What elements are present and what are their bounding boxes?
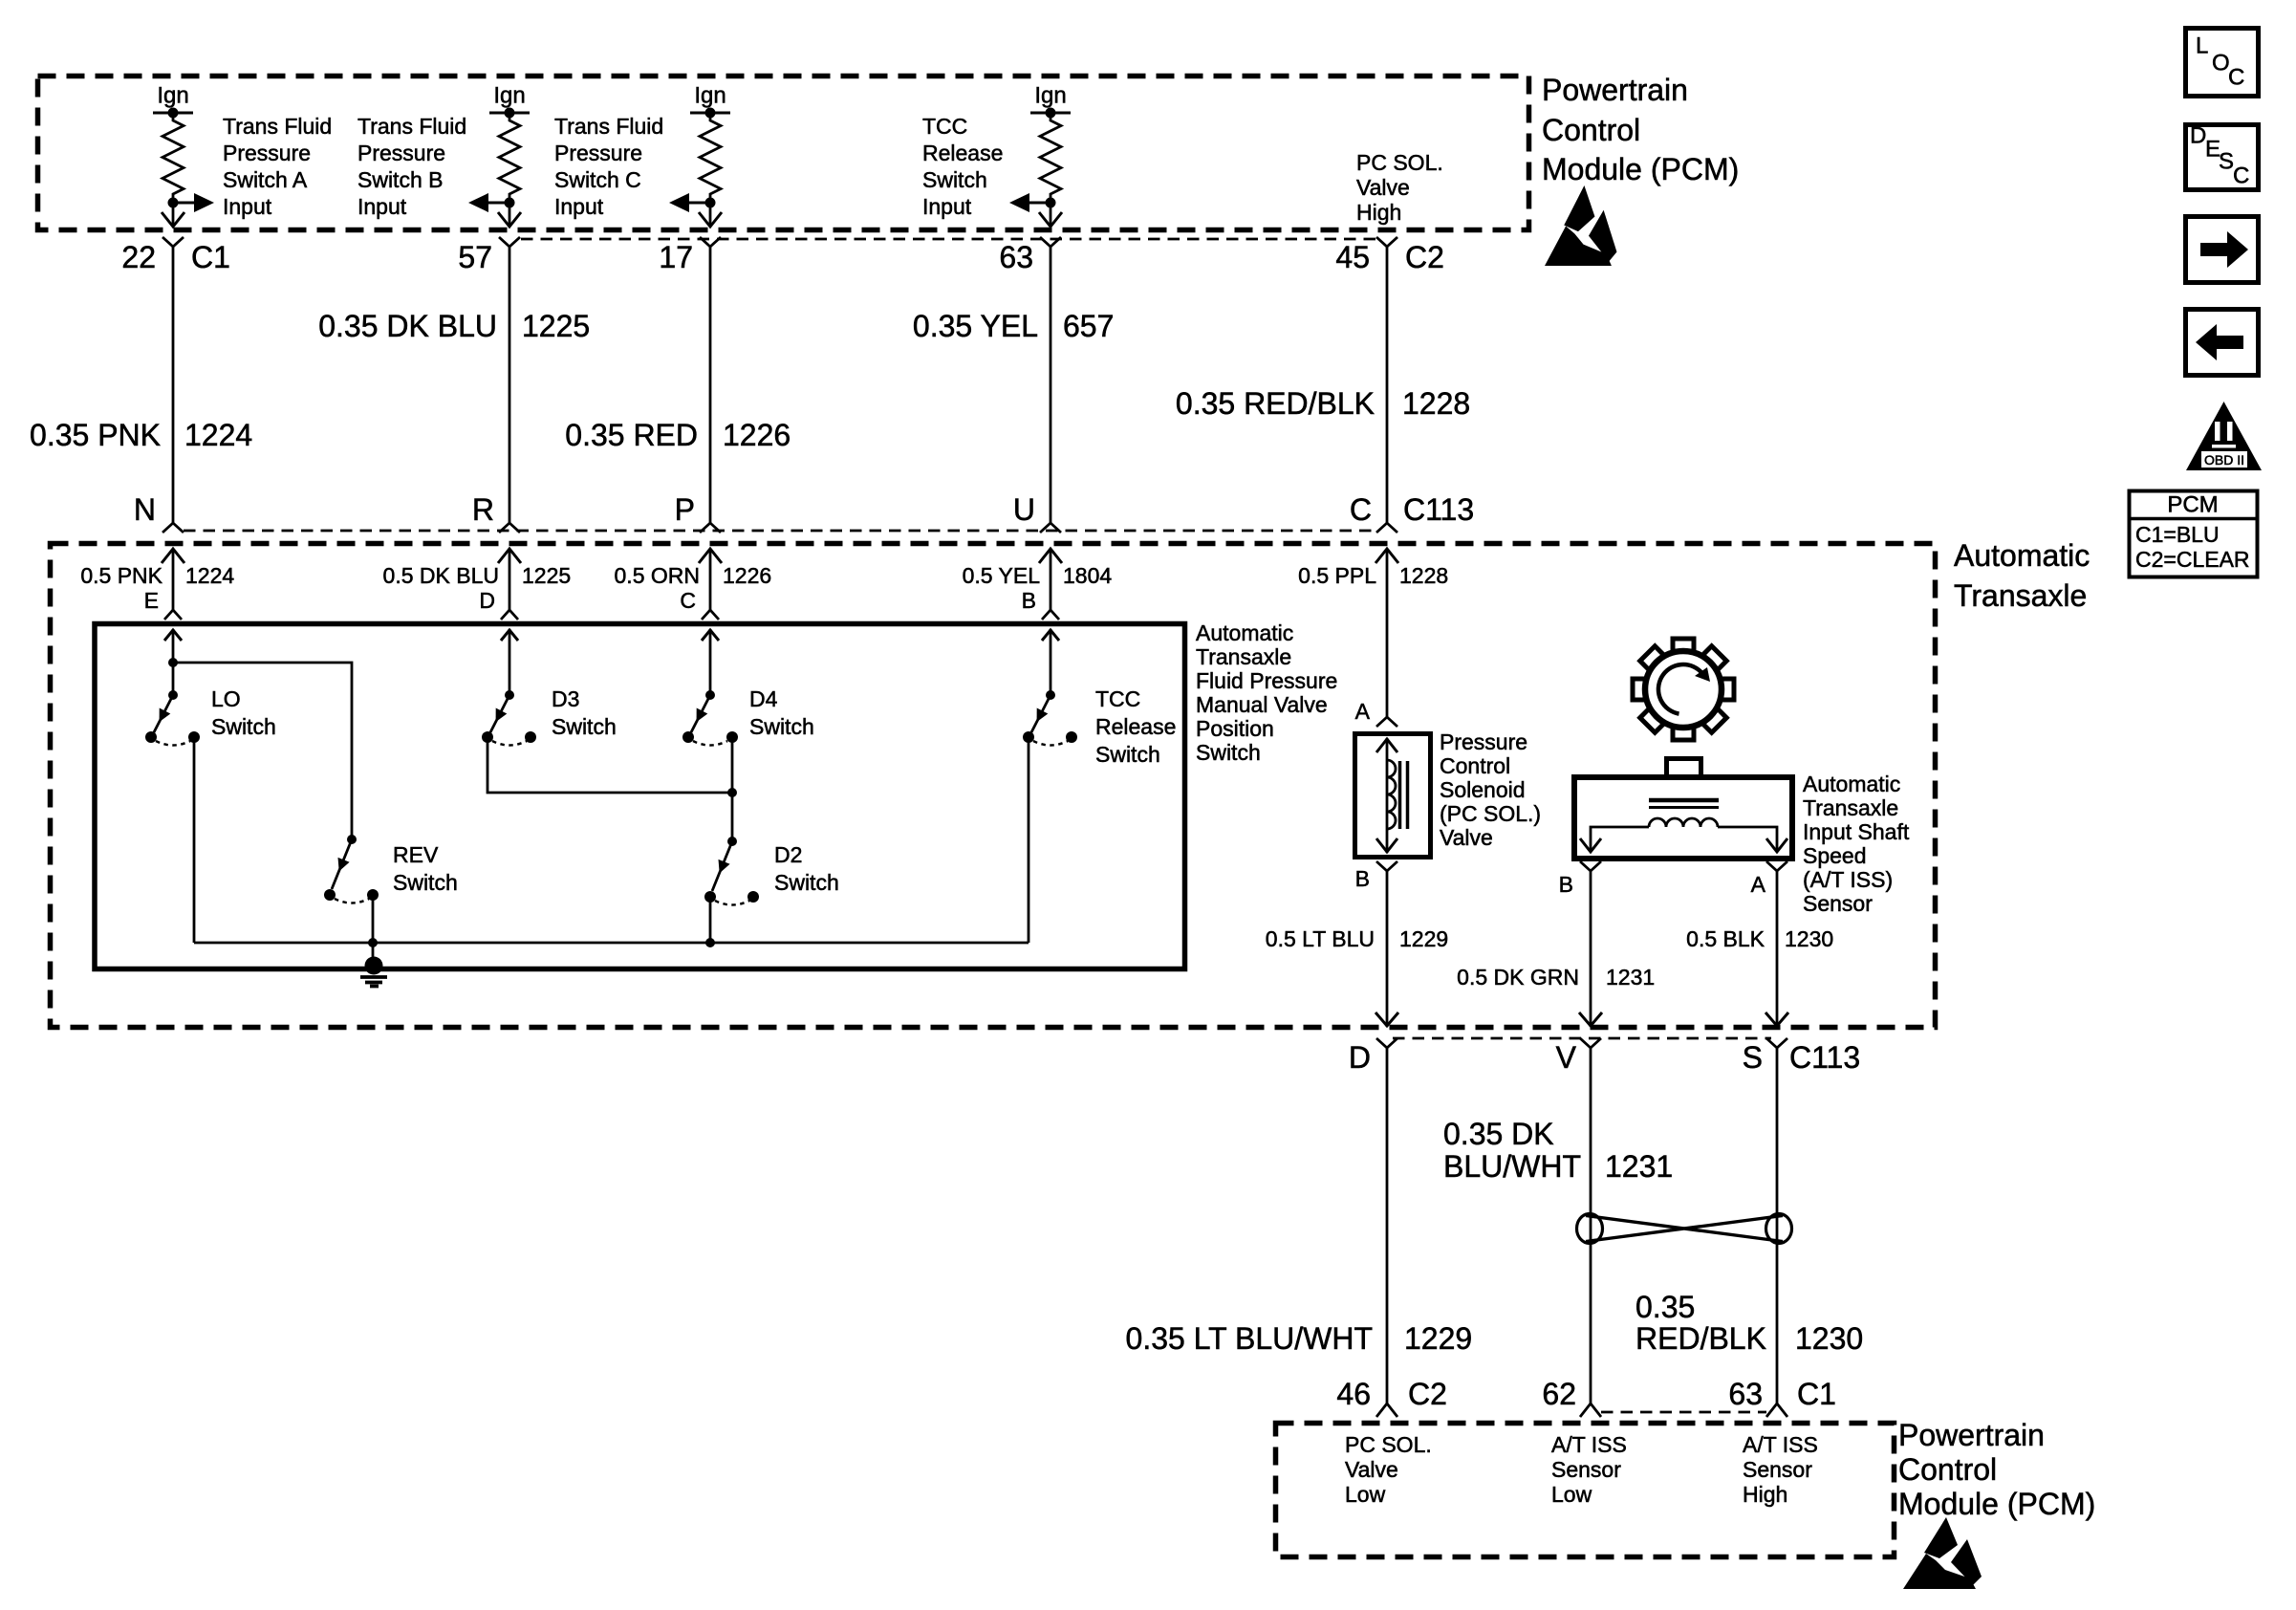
pin 17 (PCM C2) (659, 237, 721, 274)
svg-text:1225: 1225 (522, 309, 590, 343)
svg-text:Trans Fluid: Trans Fluid (554, 114, 663, 139)
PCM box top (Powertrain Control Module) (38, 76, 1529, 230)
svg-text:Ign: Ign (694, 83, 726, 109)
svg-text:A: A (1751, 872, 1766, 897)
pin 63 C1 (PCM bottom) (1728, 1377, 1836, 1417)
resistor Trans Fluid Pressure Switch C pull-up (700, 113, 721, 203)
label TCC Release Switch Input (922, 114, 1003, 219)
svg-text:Powertrain: Powertrain (1898, 1418, 2045, 1452)
wire switch A to pin 22 with down arrow (162, 203, 184, 227)
svg-text:Release: Release (922, 141, 1003, 165)
svg-text:Module (PCM): Module (PCM) (1542, 152, 1739, 186)
wire 1224 0.35 PNK pin22 to C113-N (30, 247, 252, 523)
svg-text:C: C (2228, 65, 2244, 91)
label Trans Fluid Pressure Switch B Input (357, 114, 466, 219)
label Automatic Transaxle Input Shaft Speed (A/T ISS) Sensor (1803, 772, 1910, 916)
svg-text:C113: C113 (1789, 1040, 1860, 1075)
svg-text:0.35 RED: 0.35 RED (565, 418, 698, 452)
svg-text:Position: Position (1196, 716, 1274, 741)
svg-text:RED/BLK: RED/BLK (1635, 1321, 1766, 1356)
pin 62 (PCM bottom C1) (1542, 1377, 1601, 1417)
svg-text:63: 63 (1728, 1377, 1763, 1411)
svg-text:Release: Release (1095, 714, 1176, 739)
A/T ISS sensor box (1574, 777, 1792, 859)
svg-text:0.35 DK BLU: 0.35 DK BLU (318, 309, 497, 343)
label D3 Switch (552, 686, 617, 739)
svg-text:Switch: Switch (774, 870, 839, 895)
label Pressure Control Solenoid (PC SOL.) Valve (1440, 729, 1541, 850)
svg-text:S: S (2219, 149, 2234, 175)
node Ign (switch B pull-up) (489, 83, 530, 119)
wire E entry with up arrow (164, 629, 182, 663)
svg-text:Ign: Ign (493, 83, 525, 109)
svg-text:1231: 1231 (1606, 965, 1655, 990)
svg-text:C2: C2 (1408, 1377, 1447, 1411)
svg-text:Pressure: Pressure (357, 141, 445, 165)
svg-text:1224: 1224 (184, 418, 252, 452)
pin V C113 (1556, 1038, 1601, 1075)
connector line C1 (dashed) (1601, 1411, 1766, 1414)
label PC SOL. Valve Low (1345, 1432, 1432, 1507)
svg-text:C2=CLEAR: C2=CLEAR (2135, 547, 2250, 572)
node switch B input tap (505, 198, 515, 208)
pin R C113 (472, 492, 520, 533)
pin D C113 (1349, 1038, 1397, 1075)
svg-text:A/T ISS: A/T ISS (1743, 1432, 1818, 1457)
wire 1225 0.5 DK BLU C113-R to switch D (383, 549, 572, 620)
wire REV right contact to ground (368, 900, 378, 964)
svg-text:C: C (1350, 492, 1372, 527)
svg-text:D: D (2190, 123, 2206, 149)
svg-text:E: E (144, 588, 159, 613)
svg-text:C1: C1 (191, 240, 230, 274)
wire 1224 0.5 PNK C113-N to switch E (80, 549, 234, 620)
svg-text:1228: 1228 (1399, 563, 1448, 588)
svg-text:R: R (472, 492, 494, 527)
connector line C2 (dashed) (521, 238, 1376, 241)
wire 1228 0.35 RED/BLK pin45 to C113-C (1176, 247, 1470, 523)
wire D entry with up arrow (501, 629, 518, 695)
svg-text:Input: Input (223, 194, 272, 219)
ground (inner box) (360, 957, 387, 987)
wire 1229 0.35 LT BLU/WHT C113-D to PCM 46 (1126, 1048, 1473, 1403)
svg-text:Switch: Switch (1095, 742, 1160, 767)
svg-text:62: 62 (1542, 1377, 1576, 1411)
svg-text:D: D (1349, 1040, 1371, 1075)
connector C113 top row (dashed line) (184, 530, 1376, 533)
switch D2 (704, 837, 759, 905)
node Ign (TCC release pull-up) (1030, 83, 1071, 119)
svg-text:1230: 1230 (1785, 926, 1833, 951)
svg-text:Pressure: Pressure (554, 141, 642, 165)
svg-text:V: V (1556, 1040, 1577, 1075)
coil A/T ISS sensor (1649, 818, 1718, 827)
pin S C113 (1743, 1038, 1860, 1075)
wire 1226 0.5 ORN C113-P to switch C (615, 549, 772, 620)
svg-text:B: B (1022, 588, 1036, 613)
svg-text:C: C (680, 588, 696, 613)
svg-text:Transaxle: Transaxle (1954, 578, 2087, 613)
svg-text:Switch: Switch (749, 714, 814, 739)
switch REV (324, 835, 379, 903)
node TCC release input tap (1046, 198, 1056, 208)
Automatic Transaxle box (dashed) (51, 544, 1936, 1028)
svg-text:Switch: Switch (1196, 740, 1261, 765)
Pressure Control Solenoid box (1355, 734, 1431, 858)
label Powertrain Control Module (PCM) bottom (1898, 1418, 2095, 1521)
svg-text:C1=BLU: C1=BLU (2135, 522, 2220, 547)
label PC SOL. Valve High (1356, 150, 1443, 225)
label D4 Switch (749, 686, 814, 739)
PCM box bottom (Powertrain Control Module) (1276, 1424, 1895, 1557)
svg-text:Automatic: Automatic (1196, 620, 1293, 645)
icon arrow left box (2186, 310, 2259, 376)
svg-text:Module (PCM): Module (PCM) (1898, 1487, 2095, 1521)
label A/T ISS Sensor Low (1551, 1432, 1627, 1507)
svg-text:0.5 YEL: 0.5 YEL (963, 563, 1041, 588)
wire switch B to pin 57 with down arrow (498, 203, 521, 227)
switch D3 (482, 690, 536, 746)
svg-text:PC SOL.: PC SOL. (1356, 150, 1443, 175)
svg-text:Control: Control (1898, 1452, 1997, 1487)
wire D2 left contact to bus (705, 902, 715, 947)
icon DESC box (2186, 123, 2259, 190)
svg-text:Ign: Ign (157, 83, 188, 109)
connector C113 bottom row (dashed line) (1393, 1037, 1771, 1040)
svg-text:Powertrain: Powertrain (1542, 73, 1688, 107)
svg-text:D2: D2 (774, 842, 802, 867)
svg-text:Valve: Valve (1345, 1457, 1398, 1482)
switch D4 (682, 690, 738, 746)
label Automatic Transaxle Fluid Pressure Manual Valve Position Switch (1196, 620, 1337, 765)
svg-text:57: 57 (458, 240, 492, 274)
svg-text:0.5 LT BLU: 0.5 LT BLU (1266, 926, 1375, 951)
svg-text:Sensor: Sensor (1743, 1457, 1812, 1482)
svg-text:0.5 DK BLU: 0.5 DK BLU (383, 563, 499, 588)
wire switch C to pin 17 with down arrow (699, 203, 722, 227)
wire 1228 0.5 PPL C113-C to PC solenoid A (1298, 549, 1448, 727)
wire TCC release to pin 63 with down arrow (1039, 203, 1062, 227)
wire D3 left contact to D4 line (487, 742, 732, 793)
svg-text:C2: C2 (1405, 240, 1444, 274)
svg-text:High: High (1356, 200, 1401, 225)
svg-text:0.35 RED/BLK: 0.35 RED/BLK (1176, 386, 1375, 421)
wire 1231 0.5 DK GRN ISS-B to C113-V (1457, 871, 1655, 1027)
node D3/D4 junction (727, 788, 737, 797)
pin P C113 (675, 492, 721, 533)
svg-text:Solenoid: Solenoid (1440, 777, 1526, 802)
svg-text:Input Shaft: Input Shaft (1803, 819, 1910, 844)
arrow TCC release input (left) (1009, 193, 1051, 212)
pin B PC solenoid (1355, 861, 1397, 891)
pin U C113 (1013, 492, 1061, 533)
svg-text:B: B (1559, 872, 1573, 897)
svg-text:BLU/WHT: BLU/WHT (1443, 1149, 1581, 1184)
svg-text:Fluid Pressure: Fluid Pressure (1196, 668, 1337, 693)
Manual Valve Position Switch box (solid) (95, 624, 1185, 969)
wire 1804 0.5 YEL C113-U to switch B (963, 549, 1113, 620)
svg-text:TCC: TCC (1095, 686, 1140, 711)
switch LO (145, 663, 200, 746)
wire solenoid internal with arrows (1376, 738, 1397, 853)
svg-text:Speed: Speed (1803, 843, 1867, 868)
svg-text:N: N (134, 492, 156, 527)
switch TCC Release (1023, 690, 1077, 746)
pin N C113 (134, 492, 184, 533)
wire 1229 0.5 LT BLU solenoid B to C113-D (1266, 871, 1448, 1027)
svg-text:L: L (2196, 33, 2208, 59)
label REV Switch (393, 842, 458, 895)
svg-text:Valve: Valve (1356, 175, 1410, 200)
svg-text:Trans Fluid: Trans Fluid (223, 114, 332, 139)
svg-text:0.35 YEL: 0.35 YEL (913, 309, 1038, 343)
label Trans Fluid Pressure Switch A Input (223, 114, 332, 219)
icon reluctor gear (A/T ISS) (1612, 618, 1755, 761)
svg-text:0.5 BLK: 0.5 BLK (1686, 926, 1765, 951)
label Powertrain Control Module (PCM) top (1542, 73, 1739, 186)
svg-text:0.5 PPL: 0.5 PPL (1298, 563, 1376, 588)
label D2 Switch (774, 842, 839, 895)
svg-text:Sensor: Sensor (1803, 891, 1873, 916)
pin A ISS sensor (1751, 861, 1787, 897)
label A/T ISS Sensor High (1743, 1432, 1818, 1507)
label Trans Fluid Pressure Switch C Input (554, 114, 663, 219)
svg-text:Ign: Ign (1034, 83, 1066, 109)
svg-text:17: 17 (659, 240, 693, 274)
svg-text:Switch: Switch (393, 870, 458, 895)
svg-text:Trans Fluid: Trans Fluid (357, 114, 466, 139)
svg-text:0.35 PNK: 0.35 PNK (30, 418, 161, 452)
wire ISS coil leads with down arrows (1580, 827, 1787, 852)
core A/T ISS sensor (1649, 800, 1719, 808)
wire B entry with up arrow (1042, 629, 1059, 695)
legend PCM connector table (2129, 491, 2258, 577)
svg-text:1226: 1226 (723, 418, 791, 452)
wire LO junction to REV branch (173, 663, 352, 839)
svg-text:0.35 DK: 0.35 DK (1443, 1117, 1554, 1151)
label LO Switch (211, 686, 276, 739)
svg-text:D4: D4 (749, 686, 778, 711)
arrow switch A input (right) (173, 193, 214, 212)
svg-text:Low: Low (1345, 1482, 1386, 1507)
wire 1226 0.35 RED pin17 to C113-P (565, 247, 791, 523)
icon LOC box (2186, 29, 2259, 97)
svg-text:D: D (479, 588, 495, 613)
wire ground bus (bottom of inner box) (194, 942, 1029, 945)
svg-text:O: O (2212, 51, 2230, 76)
svg-text:Valve: Valve (1440, 825, 1493, 850)
svg-text:PCM: PCM (2167, 492, 2218, 518)
svg-text:REV: REV (393, 842, 439, 867)
svg-text:U: U (1013, 492, 1035, 527)
svg-text:Input: Input (554, 194, 604, 219)
wire LO right contact to ground bus (193, 742, 196, 943)
label Automatic Transaxle (1954, 538, 2090, 613)
A/T ISS sensor tab (1667, 759, 1701, 778)
svg-text:Switch B: Switch B (357, 167, 443, 192)
svg-text:D3: D3 (552, 686, 579, 711)
svg-text:Switch: Switch (922, 167, 987, 192)
arrow switch C input (left) (669, 193, 710, 212)
svg-text:C1: C1 (1797, 1377, 1836, 1411)
arrow switch B input (left) (468, 193, 509, 212)
svg-text:Input: Input (922, 194, 972, 219)
svg-text:1229: 1229 (1404, 1321, 1472, 1356)
svg-text:Automatic: Automatic (1803, 772, 1900, 796)
svg-text:Switch C: Switch C (554, 167, 641, 192)
svg-text:1230: 1230 (1795, 1321, 1863, 1356)
wire 1230 0.35 RED/BLK C113-S to PCM 63 (1635, 1048, 1863, 1403)
node Ign (switch A pull-up) (153, 83, 193, 119)
svg-text:1228: 1228 (1402, 386, 1470, 421)
svg-text:Switch: Switch (552, 714, 617, 739)
svg-text:A: A (1355, 699, 1371, 724)
label TCC Release Switch (1095, 686, 1176, 767)
wire D4 right contact to D2 (731, 742, 734, 841)
wire C entry with up arrow (702, 629, 719, 695)
icon ESD sensitive (top) (1545, 185, 1616, 266)
svg-text:C113: C113 (1403, 492, 1474, 527)
svg-text:P: P (675, 492, 695, 527)
core PC solenoid (1400, 761, 1408, 829)
svg-text:1225: 1225 (522, 563, 571, 588)
svg-text:S: S (1743, 1040, 1763, 1075)
svg-text:Sensor: Sensor (1551, 1457, 1621, 1482)
svg-text:A/T ISS: A/T ISS (1551, 1432, 1627, 1457)
svg-text:Control: Control (1542, 113, 1640, 147)
svg-text:0.35: 0.35 (1635, 1290, 1695, 1324)
icon arrow right box (2186, 217, 2259, 283)
pin C C113 (1350, 492, 1474, 533)
svg-text:Input: Input (357, 194, 407, 219)
svg-text:TCC: TCC (922, 114, 967, 139)
svg-text:22: 22 (121, 240, 156, 274)
wire TCC left contact down (1028, 742, 1030, 943)
pin 46 C2 (PCM bottom) (1336, 1377, 1447, 1417)
svg-text:High: High (1743, 1482, 1787, 1507)
pin 63 (PCM C2) (999, 237, 1061, 274)
svg-text:0.35 LT BLU/WHT: 0.35 LT BLU/WHT (1126, 1321, 1373, 1356)
icon OBD II triangle (2186, 402, 2262, 470)
resistor Trans Fluid Pressure Switch B pull-up (499, 113, 520, 203)
svg-text:Switch: Switch (211, 714, 276, 739)
svg-text:Transaxle: Transaxle (1803, 795, 1898, 820)
svg-text:1224: 1224 (185, 563, 234, 588)
node Ign (switch C pull-up) (690, 83, 730, 119)
svg-text:LO: LO (211, 686, 241, 711)
svg-text:1231: 1231 (1605, 1149, 1673, 1184)
icon ESD sensitive (bottom) (1903, 1517, 1982, 1589)
wire 1231 0.35 DK BLU/WHT C113-V to PCM 62 (1443, 1048, 1673, 1403)
coil PC solenoid (1387, 760, 1396, 829)
svg-text:B: B (1355, 866, 1370, 891)
svg-text:Pressure: Pressure (1440, 729, 1527, 754)
wire 1225 0.35 DK BLU pin57 to C113-R (318, 247, 590, 523)
svg-text:PC SOL.: PC SOL. (1345, 1432, 1432, 1457)
node LO feed junction (168, 658, 178, 667)
svg-text:46: 46 (1336, 1377, 1371, 1411)
svg-text:0.5 DK GRN: 0.5 DK GRN (1457, 965, 1579, 990)
svg-text:0.5 PNK: 0.5 PNK (80, 563, 162, 588)
svg-text:Switch A: Switch A (223, 167, 308, 192)
pin B ISS sensor (1559, 861, 1601, 897)
twisted pair symbol (1577, 1214, 1792, 1244)
svg-text:(A/T ISS): (A/T ISS) (1803, 867, 1893, 892)
svg-text:1804: 1804 (1063, 563, 1112, 588)
svg-text:Automatic: Automatic (1954, 538, 2090, 573)
svg-text:Pressure: Pressure (223, 141, 311, 165)
svg-text:C: C (2233, 163, 2249, 189)
svg-text:(PC SOL.): (PC SOL.) (1440, 801, 1541, 826)
svg-text:0.5 ORN: 0.5 ORN (615, 563, 700, 588)
svg-text:45: 45 (1335, 240, 1370, 274)
wire 1230 0.5 BLK ISS-A to C113-S (1686, 871, 1833, 1027)
node switch C input tap (705, 198, 716, 208)
svg-text:1226: 1226 (723, 563, 771, 588)
pin 22 C1 (PCM) (121, 237, 230, 274)
svg-text:Control: Control (1440, 753, 1510, 778)
svg-text:63: 63 (999, 240, 1033, 274)
svg-text:1229: 1229 (1399, 926, 1448, 951)
svg-text:657: 657 (1063, 309, 1114, 343)
node switch A input tap (168, 198, 179, 208)
wire 657 0.35 YEL pin63 to C113-U (913, 247, 1114, 523)
svg-text:Low: Low (1551, 1482, 1592, 1507)
svg-text:Manual Valve: Manual Valve (1196, 692, 1328, 717)
svg-text:Transaxle: Transaxle (1196, 644, 1291, 669)
pin 57 (PCM C2) (458, 237, 520, 274)
resistor TCC Release Switch pull-up (1040, 113, 1061, 203)
svg-text:OBD II: OBD II (2204, 452, 2244, 468)
pin 45 C2 (PCM) (1335, 237, 1444, 274)
resistor Trans Fluid Pressure Switch A pull-up (162, 113, 184, 203)
